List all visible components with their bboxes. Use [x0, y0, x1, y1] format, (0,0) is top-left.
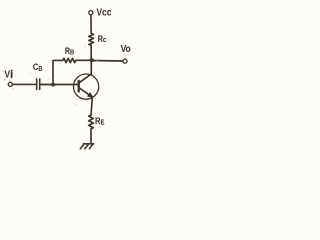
wire collector node up to Rc: [90, 45, 92, 60]
wire base node to transistor base: [53, 84, 79, 86]
capacitor CB: [36, 79, 38, 90]
terminal Vi: [8, 82, 12, 86]
svg-text:V: V: [4, 69, 10, 81]
resistor RB: [63, 58, 76, 62]
transistor Q1: [74, 74, 99, 99]
node base junction: [51, 83, 55, 87]
svg-text:Rc: Rc: [98, 34, 107, 44]
wire Vi to CB: [12, 83, 36, 85]
ground: [84, 143, 94, 145]
resistor RE: [89, 115, 94, 129]
wire collector vertical: [90, 60, 92, 75]
wire collector node to Vo: [92, 60, 123, 63]
node collector junction: [90, 58, 94, 62]
terminal Vcc: [89, 11, 93, 15]
wire emitter vertical: [91, 97, 92, 115]
resistor Rc: [89, 33, 94, 45]
wire RE to ground: [90, 129, 92, 144]
svg-text:Vo: Vo: [121, 43, 131, 55]
wire RB to collector node: [76, 59, 92, 61]
wire feedback vertical: [53, 60, 63, 84]
wire CB to base node: [40, 84, 53, 86]
paper speckles: [3, 46, 98, 106]
wire Rc to Vcc: [90, 15, 92, 34]
terminal Vo: [123, 59, 127, 63]
svg-text:Vcc: Vcc: [96, 7, 112, 19]
